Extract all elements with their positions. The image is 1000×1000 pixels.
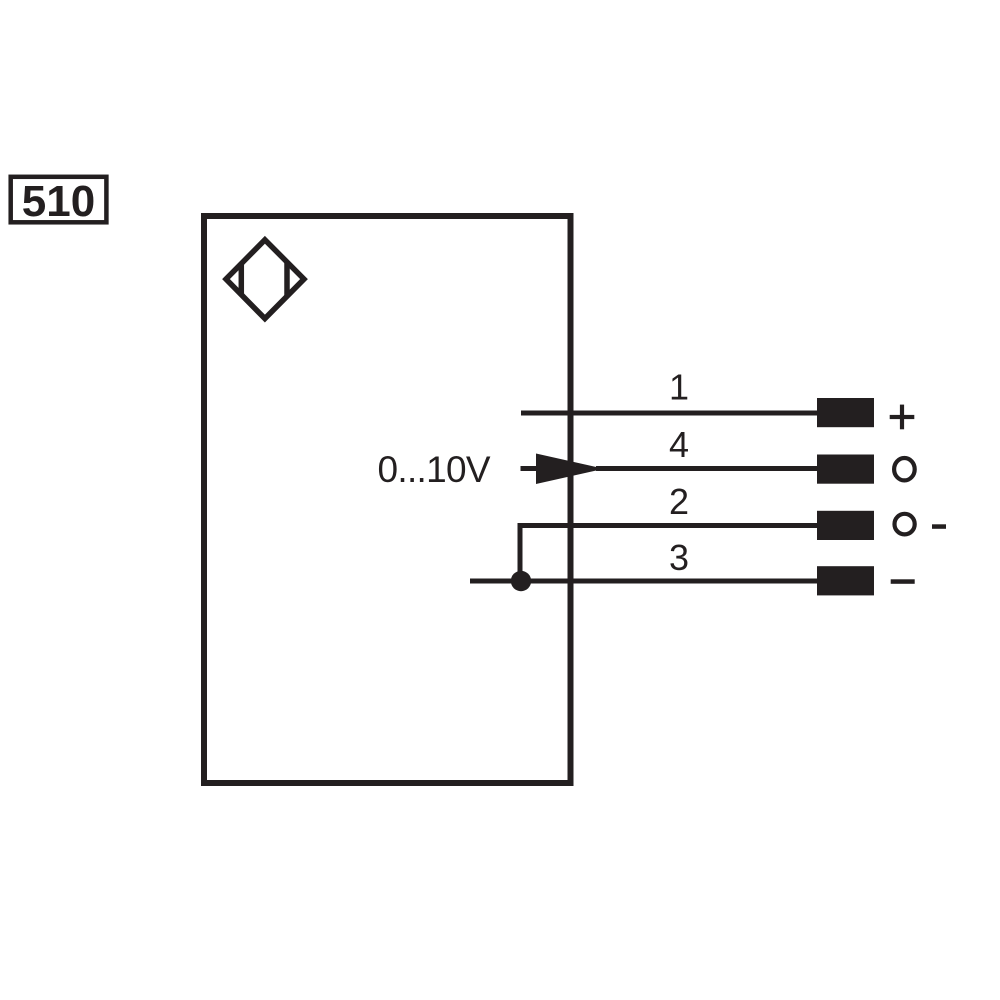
svg-text:1: 1: [669, 366, 689, 407]
svg-text:0...10V: 0...10V: [378, 449, 491, 490]
svg-text:510: 510: [22, 177, 95, 226]
svg-text:4: 4: [669, 424, 689, 465]
svg-text:3: 3: [669, 537, 689, 578]
svg-text:2: 2: [669, 481, 689, 522]
